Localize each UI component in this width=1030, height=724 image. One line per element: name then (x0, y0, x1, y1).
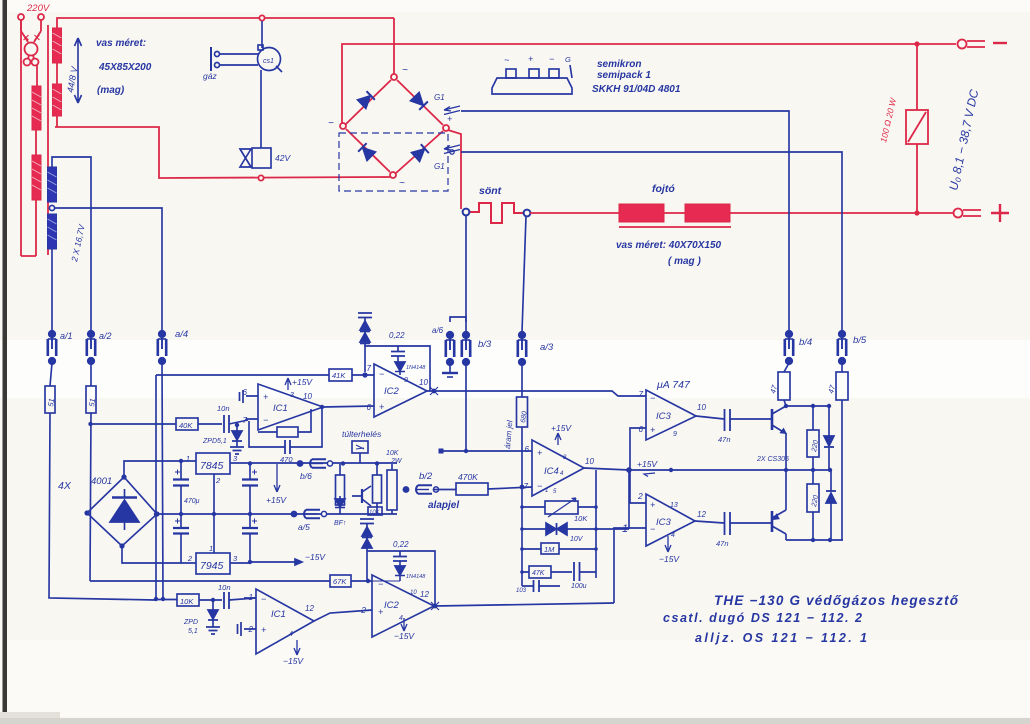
svg-text:10n: 10n (218, 583, 231, 592)
connector a/6 (446, 332, 454, 366)
wire R47a to collector rail (784, 400, 786, 406)
svg-text:220V: 220V (26, 3, 51, 14)
svg-text:10: 10 (419, 378, 428, 387)
IC1 feedback cap (249, 407, 322, 454)
op-amp IC1 (246, 384, 323, 430)
transformer primary winding section 1 (32, 86, 41, 130)
overload resistor 10K2W (387, 464, 397, 514)
bridge node AC top (391, 74, 397, 80)
resistor 47K (522, 566, 572, 578)
wire choke to plus terminal (730, 212, 954, 214)
wire primary bottom return (21, 200, 36, 256)
overload box sensor (352, 441, 368, 463)
wire between primary sections (35, 130, 37, 155)
svg-text:+: + (378, 607, 383, 617)
wire IC2 out (427, 391, 646, 396)
svg-text:2: 2 (360, 605, 366, 615)
connector a/3 (518, 332, 526, 366)
node a2 40K junction (88, 422, 92, 426)
resistor 680 (517, 397, 528, 486)
svg-text:−15V: −15V (305, 552, 326, 562)
gates wire G1 upper (461, 111, 789, 330)
resistor R47b (836, 372, 848, 400)
svg-text:−15V: −15V (283, 656, 304, 666)
svg-text:0,22: 0,22 (393, 540, 409, 549)
IC4 +15V arrow (555, 433, 561, 445)
choke fojto winding 2 (685, 204, 730, 222)
svg-text:12: 12 (305, 604, 314, 613)
svg-text:b/4: b/4 (799, 337, 812, 348)
wire between choke sections (664, 212, 685, 214)
wire shunt-right down to a3 (522, 216, 526, 332)
gas valve 42V (240, 148, 271, 168)
resistor 220 upper (807, 406, 819, 470)
resistor 1M (522, 543, 596, 554)
regulator 7845 (196, 453, 397, 514)
+15V rail arrow (644, 473, 655, 477)
svg-text:4: 4 (399, 615, 403, 622)
bridge node minus (340, 123, 346, 129)
svg-text:gáz: gáz (203, 71, 217, 81)
scan light band (0, 340, 1030, 398)
node on top bus (259, 15, 264, 20)
svg-text:+15V: +15V (551, 423, 572, 433)
capacitor 103 (522, 580, 560, 592)
gates wire G1 lower (461, 152, 842, 330)
svg-text:SKKH 91/04D 4801: SKKH 91/04D 4801 (592, 84, 681, 95)
svg-text:1: 1 (545, 488, 548, 494)
svg-text:fojtó: fojtó (652, 183, 675, 195)
connector socket a/5 (291, 510, 326, 518)
bridge diode D1 (358, 91, 375, 108)
node IC2 minus (362, 372, 367, 377)
IC3b plus wire (630, 470, 646, 503)
node IC2b out (433, 604, 438, 609)
node caps mid (179, 512, 183, 516)
resistor 470K (456, 483, 532, 495)
node rail IC4 out (626, 467, 632, 473)
svg-text:2: 2 (187, 554, 193, 563)
bridge thyristor T1 (411, 93, 428, 110)
overload diode LED (335, 496, 345, 508)
resistor 10K lower (177, 594, 222, 606)
svg-text:semipack 1: semipack 1 (597, 70, 651, 81)
svg-text:470μ: 470μ (184, 498, 200, 505)
IC1b + input cap (238, 622, 242, 636)
svg-text:51: 51 (46, 398, 56, 408)
svg-text:vas méret:: vas méret: (96, 38, 146, 49)
svg-text:G: G (565, 55, 571, 64)
node a4 bottom (161, 597, 165, 601)
svg-text:a/4: a/4 (175, 329, 188, 340)
IC2b -15V arrow (401, 618, 407, 631)
secondary 16V center tap node (49, 205, 54, 210)
node IC1 feedback (320, 405, 324, 409)
svg-text:−15V: −15V (659, 554, 680, 564)
transformer primary winding section 2 (32, 155, 41, 200)
diode stack above IC2b (360, 519, 374, 551)
svg-text:7845: 7845 (200, 460, 224, 472)
wire IC1b out to IC2b (314, 610, 372, 621)
svg-text:cs1: cs1 (263, 58, 274, 65)
rectifier diode symbol (110, 489, 139, 530)
resistor 41K (329, 369, 374, 381)
bridge thyristor T2 (412, 144, 429, 161)
svg-text:−: − (378, 579, 383, 589)
svg-text:a/5: a/5 (298, 522, 310, 532)
svg-text:470: 470 (280, 455, 293, 464)
overload resistor 10c (368, 507, 382, 515)
svg-text:1: 1 (209, 544, 213, 553)
svg-text:47n: 47n (716, 539, 729, 548)
svg-text:10: 10 (585, 457, 594, 466)
wire b3 down (465, 364, 467, 451)
node b3 on line (464, 449, 468, 453)
motor CS1 (258, 21, 283, 148)
svg-text:1N4148: 1N4148 (406, 365, 426, 371)
node minus resistor junction (914, 41, 919, 46)
svg-text:10: 10 (303, 392, 312, 401)
IC2 feedback cap 0,22 (391, 346, 405, 362)
dim arrow 44/8V (75, 38, 82, 103)
svg-text:3: 3 (290, 392, 294, 399)
svg-text:6: 6 (525, 445, 530, 454)
IC4 feedback left leg (521, 487, 523, 586)
diode D4 (826, 470, 836, 540)
svg-text:+: + (528, 54, 533, 64)
capacitor 47n lower (725, 512, 773, 535)
node plus resistor junction (914, 210, 919, 215)
svg-text:a/2: a/2 (99, 331, 112, 341)
wire minus rail (122, 546, 196, 563)
svg-text:10n: 10n (217, 404, 230, 413)
svg-text:−15V: −15V (394, 631, 415, 641)
svg-text:1: 1 (622, 523, 628, 535)
node emitter rail (784, 468, 788, 472)
svg-text:alapjel: alapjel (428, 500, 459, 511)
+15V stub arrow (274, 464, 280, 492)
svg-text:4X: 4X (58, 480, 72, 492)
svg-text:47n: 47n (718, 435, 731, 444)
node 7945 out (248, 560, 252, 564)
resistor R51b (86, 386, 96, 413)
svg-text:−: − (549, 54, 554, 64)
svg-text:+: + (650, 425, 655, 435)
svg-text:ZPD: ZPD (183, 619, 198, 626)
resistor 220 lower (807, 470, 819, 540)
svg-text:470K: 470K (458, 472, 478, 482)
node IC2 out (432, 389, 437, 394)
node on lower gate wire (450, 150, 454, 154)
overload resistor Rb (373, 464, 382, 514)
wire shunt-left down to b3 (465, 215, 467, 332)
wire emitters vertical (785, 433, 787, 510)
wire top bus to bridge AC top (393, 18, 395, 74)
op-amp IC2 (374, 364, 427, 417)
wire secondary to bridge AC2 (55, 116, 390, 178)
capacitor C470u 2 (173, 514, 189, 563)
node rail mid (154, 512, 158, 516)
svg-text:+: + (261, 625, 266, 635)
choke core line (619, 226, 731, 228)
wire IC3b out to cap (695, 521, 724, 523)
overload resistor Ra (336, 464, 345, 514)
svg-text:a/3: a/3 (540, 342, 554, 353)
emitter mid rail +15V (629, 469, 830, 471)
svg-text:IC1: IC1 (271, 609, 286, 620)
IC4 feedback right leg (595, 470, 597, 578)
svg-text:+: + (379, 402, 384, 412)
shunt right node (524, 210, 531, 217)
thyristor gate arrow upper (444, 106, 460, 115)
bottom line to 10K (155, 599, 177, 601)
svg-text:67K: 67K (333, 577, 347, 586)
collector rail upper (786, 405, 830, 407)
svg-text:13: 13 (670, 502, 678, 509)
wire Q2 collector (785, 534, 787, 540)
svg-text:IC3: IC3 (656, 517, 672, 528)
wire b5 down (841, 400, 843, 540)
node 7845 out (248, 461, 252, 465)
svg-text:ZPD5,1: ZPD5,1 (202, 438, 227, 445)
svg-text:7: 7 (367, 364, 372, 373)
op-amp IC3a (646, 390, 696, 440)
svg-text:+15V: +15V (292, 377, 313, 387)
wire 16V top to a2 (52, 157, 91, 330)
mains plug P1 (18, 14, 44, 66)
svg-text:9: 9 (404, 377, 408, 384)
svg-text:1N4148: 1N4148 (406, 574, 426, 580)
op-amp IC3b (646, 494, 695, 546)
svg-text:6: 6 (639, 425, 644, 434)
wire a1 down to bottom line (49, 413, 155, 600)
connector a/1 (48, 331, 56, 365)
svg-text:7: 7 (243, 416, 248, 425)
svg-text:7945: 7945 (200, 560, 224, 572)
a6 ground stub (442, 364, 458, 377)
bridge diode D2 (358, 143, 375, 160)
wire a2 down (90, 413, 91, 581)
connector socket b/2 (403, 485, 438, 493)
svg-text:−: − (650, 393, 655, 403)
svg-text:10: 10 (410, 590, 417, 596)
dashed package outline (339, 133, 448, 191)
svg-text:5,1: 5,1 (188, 628, 198, 635)
svg-text:+: + (537, 448, 542, 458)
output terminal minus (958, 40, 1008, 49)
svg-text:( mag ): ( mag ) (668, 256, 701, 267)
svg-text:10K: 10K (369, 510, 381, 516)
wire IC4 out (584, 468, 629, 470)
IC2 feedback diode (395, 362, 405, 375)
svg-text:THE −130 G védőgázos hegesz: THE −130 G védőgázos hegesztő (714, 593, 959, 608)
svg-text:−: − (650, 524, 655, 534)
svg-text:10K: 10K (386, 450, 399, 457)
connector b/4 (785, 331, 793, 365)
wire center tap to a4 (55, 208, 162, 330)
svg-text:6: 6 (243, 388, 248, 397)
IC1b -15V arrow (294, 640, 300, 655)
resistor 40K (176, 418, 222, 430)
svg-text:semikron: semikron (597, 59, 641, 70)
svg-text:−: − (263, 415, 268, 425)
node zener lower junction (211, 598, 215, 602)
IC3a plus wire (630, 428, 646, 470)
resistor 67K (330, 575, 372, 587)
svg-text:10K: 10K (180, 597, 194, 606)
wire bridge minus bus (342, 44, 916, 123)
wire 40K input line (90, 423, 176, 425)
wire plus riser to shunt (448, 130, 461, 209)
potentiometer 10K (522, 498, 596, 517)
svg-text:−: − (261, 594, 266, 604)
wire a2 to 67K line (90, 580, 330, 582)
bridge node plus (443, 125, 449, 131)
wire mid rail (157, 513, 397, 515)
thyristor gate arrow lower (444, 145, 460, 154)
svg-text:45X85X200: 45X85X200 (98, 62, 152, 73)
svg-text:6: 6 (367, 403, 372, 412)
zener ZPD5,1 lower (206, 600, 220, 634)
svg-text:sönt: sönt (479, 185, 502, 197)
svg-text:0,22: 0,22 (389, 331, 405, 340)
svg-text:IC1: IC1 (273, 403, 288, 414)
svg-text:vas méret: 40X70X150: vas méret: 40X70X150 (616, 240, 722, 251)
svg-text:10K: 10K (574, 514, 588, 523)
svg-text:G1: G1 (434, 93, 445, 102)
svg-text:(mag): (mag) (97, 85, 125, 96)
capacitor 10n upper (224, 415, 248, 433)
wire minus to terminal (917, 43, 956, 45)
resistor R 100ohm 20W (906, 44, 928, 213)
connector socket b/6 (297, 459, 332, 467)
connector a/2 (87, 331, 95, 365)
shunt left node (463, 209, 470, 216)
capacitor C470u 3 (242, 464, 258, 514)
svg-text:b/2: b/2 (419, 471, 433, 482)
svg-text:a/6: a/6 (432, 326, 444, 335)
zener ZPD5,1 upper (230, 425, 244, 454)
IC3b -15V arrow (665, 536, 671, 552)
diode D3 (824, 406, 834, 470)
svg-text:9: 9 (673, 431, 677, 438)
wire b4 to R47a (784, 363, 789, 372)
svg-text:a/1: a/1 (60, 331, 73, 341)
svg-text:IC2: IC2 (384, 600, 400, 611)
wire shunt to choke (530, 212, 619, 214)
capacitor 10n lower (224, 592, 256, 609)
svg-text:+: + (650, 500, 655, 510)
svg-text:IC4: IC4 (544, 466, 559, 477)
node collector rail (784, 404, 788, 408)
node IC2b minus (366, 579, 370, 583)
node bottom rail (811, 538, 815, 542)
svg-text:b/6: b/6 (300, 471, 312, 481)
svg-text:4: 4 (671, 532, 675, 539)
transformer secondary 16V winding 1 (48, 167, 57, 202)
svg-text:2: 2 (215, 476, 221, 485)
svg-text:4: 4 (289, 631, 293, 638)
svg-text:51: 51 (87, 398, 97, 408)
choke fojto winding 1 (619, 204, 664, 222)
transistor Q2 (772, 510, 786, 534)
svg-text:+: + (447, 114, 452, 124)
svg-text:41K: 41K (332, 371, 346, 380)
node test point (439, 449, 444, 454)
shunt zigzag (470, 203, 523, 223)
svg-text:7: 7 (639, 390, 644, 399)
svg-text:+15V: +15V (266, 495, 287, 505)
wire IC2b out long (435, 603, 614, 606)
svg-text:G1: G1 (434, 162, 445, 171)
wire between 44V sections (56, 63, 58, 84)
op-amp IC4 (532, 440, 584, 496)
svg-text:IC2: IC2 (384, 386, 400, 397)
IC2b feedback diode (372, 566, 405, 581)
svg-text:1: 1 (186, 454, 190, 463)
svg-text:12: 12 (697, 510, 706, 519)
wire IC4 out down leg (628, 470, 630, 529)
transistor Q1 (772, 406, 786, 433)
svg-text:42V: 42V (275, 153, 291, 163)
svg-text:103: 103 (516, 588, 527, 594)
wire IC3a out to cap (696, 416, 724, 419)
wire 16V bottom to a1 (51, 249, 53, 330)
wire secondary tap (47, 25, 49, 255)
IC2b feedback loop (367, 551, 435, 606)
transformer secondary 44V section B (53, 84, 62, 116)
node IC4 minus junction (520, 485, 525, 490)
svg-text:2: 2 (637, 491, 643, 501)
svg-text:b/3: b/3 (478, 339, 492, 350)
jumper bracket a6 b3 (450, 317, 466, 322)
scan black left edge (3, 0, 8, 717)
node cap1 top (179, 459, 183, 463)
rectifier 4001 diamond (87, 477, 157, 546)
IC1 + input cap (240, 390, 244, 403)
wire IC1 out to IC2 plus (323, 406, 374, 407)
wire mains left (20, 20, 22, 256)
wire a4 down to bottom line (162, 363, 163, 599)
svg-text:túlterhelés: túlterhelés (342, 429, 382, 439)
wire b5 to R47b (841, 363, 843, 372)
diode stack above IC2 (358, 313, 372, 346)
resistor R47a (778, 372, 790, 400)
node zener junction (235, 423, 239, 427)
svg-text:IC3: IC3 (656, 411, 672, 422)
svg-text:1M: 1M (544, 545, 555, 554)
wire a3 to 680 (521, 364, 523, 397)
transformer secondary 16V winding 2 (48, 214, 57, 249)
capacitor 47n upper (725, 409, 773, 431)
IC1 feedback resistor 470 (258, 409, 311, 437)
rail transistor bottom (786, 539, 843, 541)
op-amp IC1b (244, 589, 314, 654)
node valve bottom (258, 175, 263, 180)
node diamond vertices (121, 474, 126, 479)
wire b4 connector stem (788, 330, 790, 332)
wire rail down left (155, 375, 157, 598)
bridge node AC bottom (390, 172, 396, 178)
wire a1 to R51a (50, 363, 52, 386)
+15V feed rail to IC2 (156, 374, 329, 376)
svg-text:1: 1 (249, 593, 253, 602)
+15V arrow IC1 (285, 378, 291, 390)
svg-text:4001: 4001 (91, 476, 112, 487)
capacitor C470u 4 (242, 514, 258, 560)
svg-text:100u: 100u (571, 583, 587, 590)
wire top bus corner (57, 18, 394, 28)
